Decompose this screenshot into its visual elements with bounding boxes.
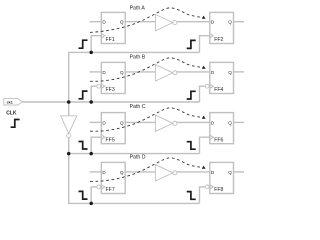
wire FF7 Q to inverter — [125, 171, 155, 173]
junction CLK/bus — [67, 100, 71, 104]
svg-text:FF7: FF7 — [106, 187, 115, 193]
dashed timing path Path A — [90, 8, 202, 33]
svg-text:FF2: FF2 — [214, 37, 223, 43]
wire D input stub FF7 — [90, 171, 102, 173]
flip-flop FF3 — [97, 62, 125, 93]
wire FF1 Q to inverter — [125, 21, 155, 23]
flip-flop FF1 — [101, 12, 125, 43]
wire clock corner FF8 — [200, 187, 206, 204]
junction clock tap FF1 — [89, 51, 93, 55]
svg-text:Q: Q — [120, 170, 124, 175]
svg-text:Q: Q — [120, 20, 124, 25]
flip-flop FF6 — [210, 113, 234, 144]
flip-flop FF7 — [97, 162, 125, 193]
wire CLK main horizontal — [22, 101, 199, 103]
flip-flop FF2 — [210, 12, 234, 43]
arrowhead Path C — [202, 116, 206, 119]
svg-text:Q: Q — [228, 120, 232, 125]
wire FF8 Q output stub — [234, 171, 245, 173]
wire inverted clock vertical — [68, 138, 70, 204]
svg-text:D: D — [211, 120, 215, 125]
wire clock corner FF4 — [200, 86, 206, 102]
dashed timing path Path D — [90, 158, 202, 182]
inverter U1 clock inverter — [61, 116, 77, 138]
svg-text:Path D: Path D — [130, 155, 146, 161]
wire FF3 Q to inverter — [125, 71, 155, 73]
arrowhead Path A — [202, 16, 206, 19]
inverter U2 data inverter — [155, 14, 177, 30]
CLK rising-edge symbol — [11, 120, 20, 128]
clock edge symbol FF2 — [187, 40, 196, 48]
svg-text:Q: Q — [228, 170, 232, 175]
wire clock tap FF5 — [91, 137, 101, 153]
svg-text:D: D — [102, 20, 106, 25]
wire row3 clock bus — [69, 153, 200, 155]
svg-text:FF1: FF1 — [106, 37, 115, 43]
wire clock corner FF6 — [200, 137, 210, 153]
arrowhead Path B — [202, 66, 206, 69]
dashed timing path Path C — [90, 108, 202, 131]
svg-text:D: D — [211, 170, 215, 175]
svg-text:Path C: Path C — [130, 104, 146, 110]
wire D input stub FF3 — [90, 71, 102, 73]
wire FF5 Q to inverter — [125, 121, 155, 123]
inverter U4 data inverter — [155, 115, 177, 131]
junction clock tap FF7 — [89, 202, 93, 206]
svg-text:Path B: Path B — [130, 54, 146, 60]
svg-text:Q: Q — [228, 70, 232, 75]
wire D input stub FF1 — [90, 21, 102, 23]
svg-text:Path A: Path A — [130, 5, 146, 11]
dashed timing path Path B — [90, 58, 202, 82]
clock edge symbol FF3 — [79, 91, 88, 99]
svg-text:Q: Q — [120, 120, 124, 125]
junction clock tap FF3 — [89, 100, 93, 104]
flip-flop FF5 — [101, 113, 125, 144]
wire clock tap FF7 — [91, 187, 97, 204]
wire row1 clock bus — [68, 51, 199, 53]
svg-text:Q: Q — [228, 20, 232, 25]
wire vertical bus row1 feed — [68, 52, 70, 102]
svg-text:D: D — [102, 120, 106, 125]
svg-text:FF3: FF3 — [106, 87, 115, 93]
svg-text:FF8: FF8 — [214, 187, 223, 193]
clock edge symbol FF4 — [187, 91, 196, 99]
inverter U5 data inverter — [155, 165, 177, 181]
flip-flop FF4 — [205, 62, 233, 93]
flip-flop FF8 — [205, 162, 233, 193]
wire FF6 Q output stub — [234, 121, 245, 123]
junction inverted clock row3 — [67, 152, 71, 156]
clock edge symbol FF5 — [79, 142, 88, 150]
svg-text:D: D — [102, 70, 106, 75]
svg-text:D: D — [102, 170, 106, 175]
svg-text:D: D — [211, 20, 215, 25]
wire inverter to FF4 D — [177, 71, 210, 73]
svg-text:D: D — [211, 70, 215, 75]
wire inverter to FF8 D — [177, 171, 210, 173]
svg-text:FF6: FF6 — [214, 137, 223, 143]
svg-text:CLK: CLK — [6, 110, 17, 116]
svg-text:Q: Q — [120, 70, 124, 75]
clock edge symbol FF7 — [79, 191, 88, 199]
wire clock corner FF2 — [200, 36, 210, 53]
wire inverter to FF6 D — [177, 121, 210, 123]
svg-text:FF4: FF4 — [214, 87, 223, 93]
wire D input stub FF5 — [90, 121, 102, 123]
wire row4 clock bus — [68, 202, 199, 204]
input port ck1 — [4, 99, 22, 105]
wire FF4 Q output stub — [234, 71, 245, 73]
svg-text:FF5: FF5 — [106, 137, 115, 143]
arrowhead Path D — [202, 166, 206, 169]
clock edge symbol FF8 — [187, 192, 196, 200]
clock edge symbol FF6 — [187, 142, 196, 150]
wire bus into inverter — [68, 102, 70, 116]
wire clock tap FF3 — [91, 86, 97, 102]
svg-text:ck1: ck1 — [7, 100, 13, 104]
wire inverter to FF2 D — [177, 21, 210, 23]
wire clock tap FF1 — [91, 36, 101, 53]
inverter U3 data inverter — [155, 65, 177, 81]
clock edge symbol FF1 — [79, 40, 88, 48]
wire FF2 Q output stub — [234, 21, 245, 23]
junction clock tap FF5 — [89, 152, 93, 156]
